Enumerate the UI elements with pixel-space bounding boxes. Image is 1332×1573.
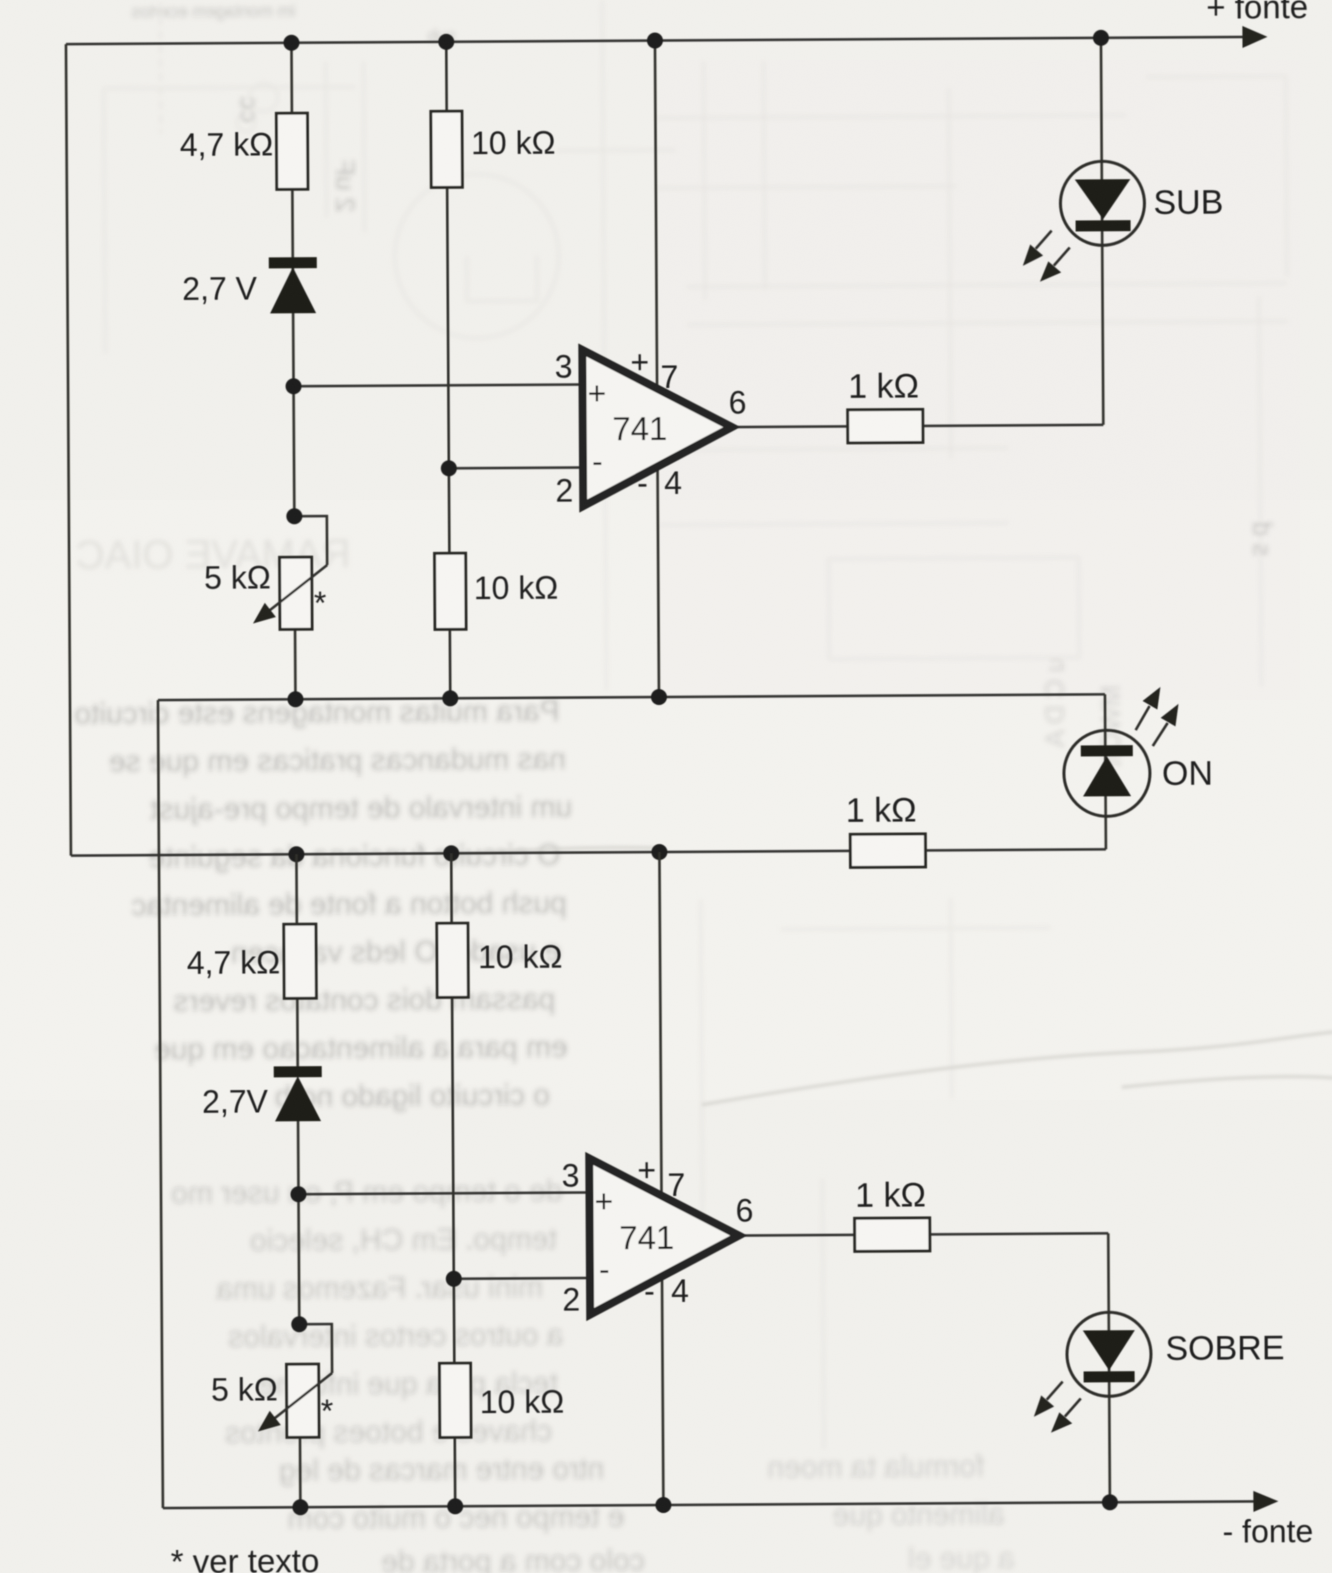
wire LED SOBRE column [1108, 1233, 1110, 1502]
power arrow +fonte [1242, 26, 1267, 48]
resistor 1k upper [848, 409, 923, 442]
resistor 10k lower second [440, 1363, 471, 1437]
resistor 4,7k lower [284, 924, 316, 998]
wire pot P2 hook to wiper [299, 1324, 332, 1373]
wire lower zener chain top [295, 854, 298, 924]
op-amp U2 741 lower [561, 1151, 754, 1317]
resistor 10k upper second [435, 553, 466, 629]
wire lower zener to node [298, 1121, 299, 1324]
wire LED ON column [1104, 694, 1108, 849]
zener 2,7V upper [269, 257, 317, 313]
junction dots lower middle rail [288, 844, 667, 862]
junction dot node pin3 lower [290, 1186, 306, 1202]
junction dot node pin3 upper [286, 378, 302, 394]
LED SOBRE [1033, 1312, 1151, 1433]
wire lower 10k chain middle [452, 997, 454, 1363]
resistor 1k middle [850, 834, 925, 867]
wire op-amp U2 pin 3 [298, 1192, 589, 1194]
power arrow -fonte [1253, 1491, 1278, 1512]
potentiometer 5k lower [258, 1364, 333, 1437]
wire 1k to LED SOBRE corner [930, 1233, 1108, 1234]
LED ON [1063, 687, 1179, 817]
potentiometer 5k upper [253, 557, 328, 629]
resistor 4,7k upper [276, 113, 307, 189]
junction dots upper middle rail [287, 689, 667, 707]
wire left rail (+fonte down to lower mid rail) [66, 44, 71, 855]
wire op-amp U1 output pin 6 [732, 425, 848, 428]
wire lower zener chain middle [296, 998, 299, 1066]
junction dot node pin2 upper [441, 460, 457, 476]
wire LED SUB column [1101, 38, 1103, 425]
wire upper 10k chain bottom [449, 629, 452, 698]
wire upper 10k chain top [445, 42, 448, 111]
wire left drop rail (upper mid rail to bottom rail) [158, 700, 163, 1508]
wire op-amp U1 pin 3 [294, 385, 583, 387]
wire upper middle rail (-fonte return) [158, 694, 1105, 700]
resistor 1k lower [855, 1218, 930, 1251]
zener 2,7V lower [274, 1066, 322, 1121]
wire lower middle rail left segment [71, 851, 850, 856]
junction dots top rail [283, 30, 1109, 51]
wire upper 10k chain middle [447, 187, 449, 553]
wire bottom -fonte rail [163, 1501, 1259, 1508]
wire top +fonte rail [66, 37, 1248, 44]
wire pot P1 bottom to rail [294, 629, 297, 699]
wire op-amp U2 output pin 6 [739, 1234, 855, 1237]
junction dot node pin2 lower [446, 1271, 462, 1287]
junction dot pot P1 top [286, 508, 302, 524]
junction dot pot P2 top [291, 1316, 307, 1332]
wire op-amp U1 pin7/pin4 vertical [655, 41, 659, 697]
wire pot P1 hook to wiper [294, 516, 327, 565]
LED SUB [1022, 161, 1145, 282]
wire lower middle rail right segment [925, 849, 1105, 850]
resistor 10k lower first [437, 923, 468, 997]
wire pot P2 bottom to rail [299, 1437, 302, 1507]
junction dots bottom rail [292, 1494, 1118, 1515]
wire op-amp U2 pin 2 [454, 1277, 590, 1280]
wire lower 10k chain bottom [453, 1437, 456, 1506]
wire upper zener to node 3 [292, 189, 294, 516]
wire upper zener chain top [290, 43, 293, 114]
wire lower 10k chain top [450, 853, 453, 923]
resistor 10k upper first [431, 111, 462, 187]
wire op-amp U1 pin 2 [449, 466, 583, 469]
wire op-amp U2 pin7/pin4 vertical [659, 852, 663, 1505]
wire 1k to LED SUB corner [923, 425, 1103, 426]
op-amp U1 741 upper [555, 344, 748, 509]
